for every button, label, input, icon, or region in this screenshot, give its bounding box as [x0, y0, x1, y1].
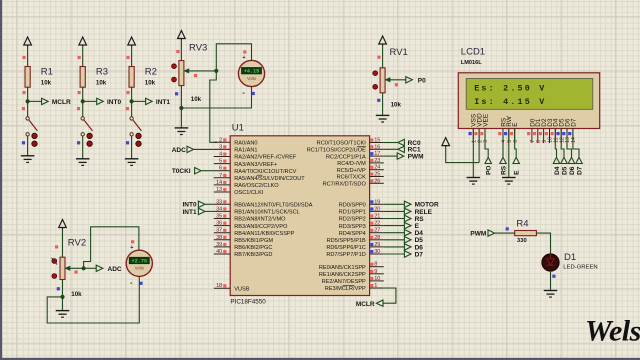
svg-text:INT0: INT0	[183, 202, 197, 209]
svg-text:R2: R2	[145, 67, 157, 78]
svg-text:9: 9	[374, 269, 377, 275]
svg-text:RA4/T0CKI/C1OUT/RCV: RA4/T0CKI/C1OUT/RCV	[234, 169, 296, 175]
svg-text:RD3/SPP3: RD3/SPP3	[339, 224, 366, 230]
svg-text:3: 3	[219, 144, 222, 150]
svg-text:RB7/KBI3/PGD: RB7/KBI3/PGD	[234, 252, 272, 258]
svg-text:D6: D6	[569, 166, 576, 175]
svg-text:RELE: RELE	[415, 209, 433, 216]
svg-text:26: 26	[374, 178, 380, 184]
svg-text:MCLR: MCLR	[356, 301, 375, 308]
svg-text:RV3: RV3	[189, 43, 207, 54]
svg-text:14: 14	[216, 180, 222, 186]
svg-text:19: 19	[374, 199, 380, 205]
svg-text:INT1: INT1	[183, 209, 197, 216]
svg-text:RC4/D-/VM: RC4/D-/VM	[337, 161, 366, 167]
svg-text:R1: R1	[41, 67, 53, 78]
svg-text:PO: PO	[486, 165, 493, 174]
svg-text:34: 34	[216, 206, 222, 212]
svg-text:22: 22	[374, 221, 380, 227]
svg-text:PWM: PWM	[408, 153, 424, 160]
svg-text:PIC18F4550: PIC18F4550	[230, 299, 266, 306]
svg-text:27: 27	[374, 228, 380, 234]
svg-text:RC6/TX/CK: RC6/TX/CK	[337, 175, 366, 181]
svg-text:10k: 10k	[41, 80, 52, 87]
svg-text:LCD1: LCD1	[461, 47, 485, 58]
svg-text:PWM: PWM	[470, 231, 486, 238]
svg-text:40: 40	[216, 249, 222, 255]
svg-text:23: 23	[374, 158, 380, 164]
svg-text:VEE: VEE	[482, 114, 489, 127]
svg-text:VUSB: VUSB	[234, 286, 250, 292]
svg-text:29: 29	[374, 242, 380, 248]
svg-text:33: 33	[216, 199, 222, 205]
svg-text:+: +	[130, 245, 133, 251]
svg-text:OSC1/CLKI: OSC1/CLKI	[234, 190, 264, 196]
svg-text:RE0/AN5/CK1SPP: RE0/AN5/CK1SPP	[319, 265, 366, 271]
svg-text:RA5/AN4/SS/LVDIN/C2OUT: RA5/AN4/SS/LVDIN/C2OUT	[234, 176, 305, 182]
svg-text:RE1/AN6/CK2SPP: RE1/AN6/CK2SPP	[319, 272, 366, 278]
svg-text:1: 1	[374, 283, 377, 289]
svg-text:RA6/OSC2/CLKO: RA6/OSC2/CLKO	[234, 183, 279, 189]
svg-text:D7: D7	[570, 118, 577, 127]
svg-text:RD6/SPP6/P1C: RD6/SPP6/P1C	[326, 245, 365, 251]
svg-text:21: 21	[374, 214, 380, 220]
svg-text:25: 25	[374, 172, 380, 178]
svg-text:13: 13	[216, 187, 222, 193]
svg-text:10k: 10k	[96, 80, 107, 87]
svg-text:RB2/AN8/INT2/VMO: RB2/AN8/INT2/VMO	[234, 217, 286, 223]
svg-text:E: E	[512, 122, 519, 126]
svg-text:10k: 10k	[145, 80, 156, 87]
svg-text:RB0/AN12/INT0/FLT0/SDI/SDA: RB0/AN12/INT0/FLT0/SDI/SDA	[234, 203, 313, 209]
svg-text:LED-GREEN: LED-GREEN	[563, 265, 597, 271]
svg-text:Volts: Volts	[135, 266, 144, 271]
svg-text:10: 10	[374, 276, 380, 282]
svg-text:RC0/T1OSO/T1CKI: RC0/T1OSO/T1CKI	[317, 141, 367, 147]
svg-text:RB3/AN9/CCP2/VPO: RB3/AN9/CCP2/VPO	[234, 224, 288, 230]
svg-text:4: 4	[219, 152, 222, 158]
svg-text:10k: 10k	[191, 96, 202, 103]
svg-text:E: E	[415, 223, 420, 230]
svg-text:RD5/SPP5/P1B: RD5/SPP5/P1B	[327, 238, 366, 244]
svg-text:RD7/SPP7/P1D: RD7/SPP7/P1D	[326, 252, 365, 258]
svg-text:+: +	[242, 55, 245, 61]
svg-text:R4: R4	[516, 219, 528, 230]
svg-text:6: 6	[219, 166, 222, 172]
svg-text:10k: 10k	[71, 291, 82, 298]
svg-text:U1: U1	[232, 123, 244, 134]
svg-text:38: 38	[216, 235, 222, 241]
svg-text:36: 36	[216, 221, 222, 227]
svg-text:RS: RS	[415, 216, 425, 223]
svg-text:7: 7	[219, 173, 222, 179]
svg-text:30: 30	[374, 249, 380, 255]
svg-text:37: 37	[216, 228, 222, 234]
svg-text:D4: D4	[554, 166, 561, 175]
svg-text:RS: RS	[501, 165, 508, 175]
svg-text:RV1: RV1	[390, 47, 408, 58]
svg-text:T0CKI: T0CKI	[172, 168, 191, 175]
svg-text:Is: 4.15 V: Is: 4.15 V	[474, 97, 546, 107]
svg-text:INT1: INT1	[156, 99, 170, 106]
svg-text:Wels: Wels	[585, 315, 640, 348]
svg-text:RB1/AN10/INT1/SCK/SCL: RB1/AN10/INT1/SCK/SCL	[234, 210, 300, 216]
svg-text:RA3/AN3/VREF+: RA3/AN3/VREF+	[234, 162, 277, 168]
svg-text:D5: D5	[562, 166, 569, 175]
svg-text:RE3/MCLR/VPP: RE3/MCLR/VPP	[325, 286, 366, 292]
svg-text:+4.15: +4.15	[244, 69, 260, 75]
svg-text:330: 330	[517, 238, 527, 244]
svg-text:R3: R3	[96, 67, 108, 78]
svg-text:E: E	[514, 170, 521, 175]
svg-text:Volts: Volts	[247, 76, 256, 81]
svg-text:LM016L: LM016L	[461, 60, 482, 66]
svg-text:17: 17	[374, 151, 380, 157]
svg-text:16: 16	[374, 144, 380, 150]
svg-text:10k: 10k	[391, 102, 402, 109]
svg-text:RB5/KBI1/PGM: RB5/KBI1/PGM	[234, 238, 273, 244]
svg-text:24: 24	[374, 165, 380, 171]
svg-text:RC1/T1OSI/CCP2/UOE: RC1/T1OSI/CCP2/UOE	[307, 148, 366, 154]
svg-text:MOTOR: MOTOR	[415, 202, 439, 209]
svg-text:+2.70: +2.70	[132, 258, 148, 264]
svg-text:39: 39	[216, 242, 222, 248]
svg-text:RE2/AN7/OESPP: RE2/AN7/OESPP	[322, 279, 366, 285]
svg-text:ADC: ADC	[172, 147, 186, 154]
svg-text:Es: 2.50 V: Es: 2.50 V	[474, 83, 546, 93]
svg-text:20: 20	[374, 206, 380, 212]
svg-text:RB6/KBI2/PGC: RB6/KBI2/PGC	[234, 245, 272, 251]
svg-text:2: 2	[219, 137, 222, 143]
svg-text:RD0/SPP0: RD0/SPP0	[339, 203, 366, 209]
svg-text:RC2/CCP1/P1A: RC2/CCP1/P1A	[326, 154, 366, 160]
svg-text:RV2: RV2	[68, 238, 86, 249]
svg-text:MCLR: MCLR	[52, 99, 71, 106]
svg-text:RD2/SPP2: RD2/SPP2	[339, 217, 366, 223]
svg-text:35: 35	[216, 214, 222, 220]
svg-text:15: 15	[374, 138, 380, 144]
svg-text:RD1/SPP1: RD1/SPP1	[339, 210, 366, 216]
svg-text:RA2/AN2/VREF-/CVREF: RA2/AN2/VREF-/CVREF	[234, 155, 297, 161]
svg-text:RD4/SPP4: RD4/SPP4	[339, 231, 366, 237]
svg-text:RA0/AN0: RA0/AN0	[234, 141, 257, 147]
svg-text:8: 8	[374, 262, 377, 268]
svg-text:D6: D6	[415, 244, 424, 251]
svg-text:RA1/AN1: RA1/AN1	[234, 148, 257, 154]
svg-text:ADC: ADC	[108, 266, 122, 273]
svg-text:D7: D7	[415, 251, 424, 258]
svg-text:18: 18	[216, 283, 222, 289]
svg-text:RC5/D+/VP: RC5/D+/VP	[337, 168, 366, 174]
svg-text:RC7/RX/DT/SDO: RC7/RX/DT/SDO	[323, 182, 367, 188]
svg-text:D7: D7	[577, 166, 584, 175]
svg-text:INT0: INT0	[107, 99, 121, 106]
svg-text:14: 14	[571, 137, 577, 143]
svg-text:RB4/AN11/KBI0/CSSPP: RB4/AN11/KBI0/CSSPP	[234, 231, 294, 237]
svg-text:3: 3	[483, 140, 489, 143]
svg-text:28: 28	[374, 235, 380, 241]
svg-text:6: 6	[513, 140, 519, 143]
svg-text:P0: P0	[418, 77, 426, 84]
svg-text:D1: D1	[564, 252, 576, 263]
svg-text:5: 5	[219, 159, 222, 165]
svg-text:D4: D4	[415, 230, 424, 237]
svg-text:D5: D5	[415, 237, 424, 244]
